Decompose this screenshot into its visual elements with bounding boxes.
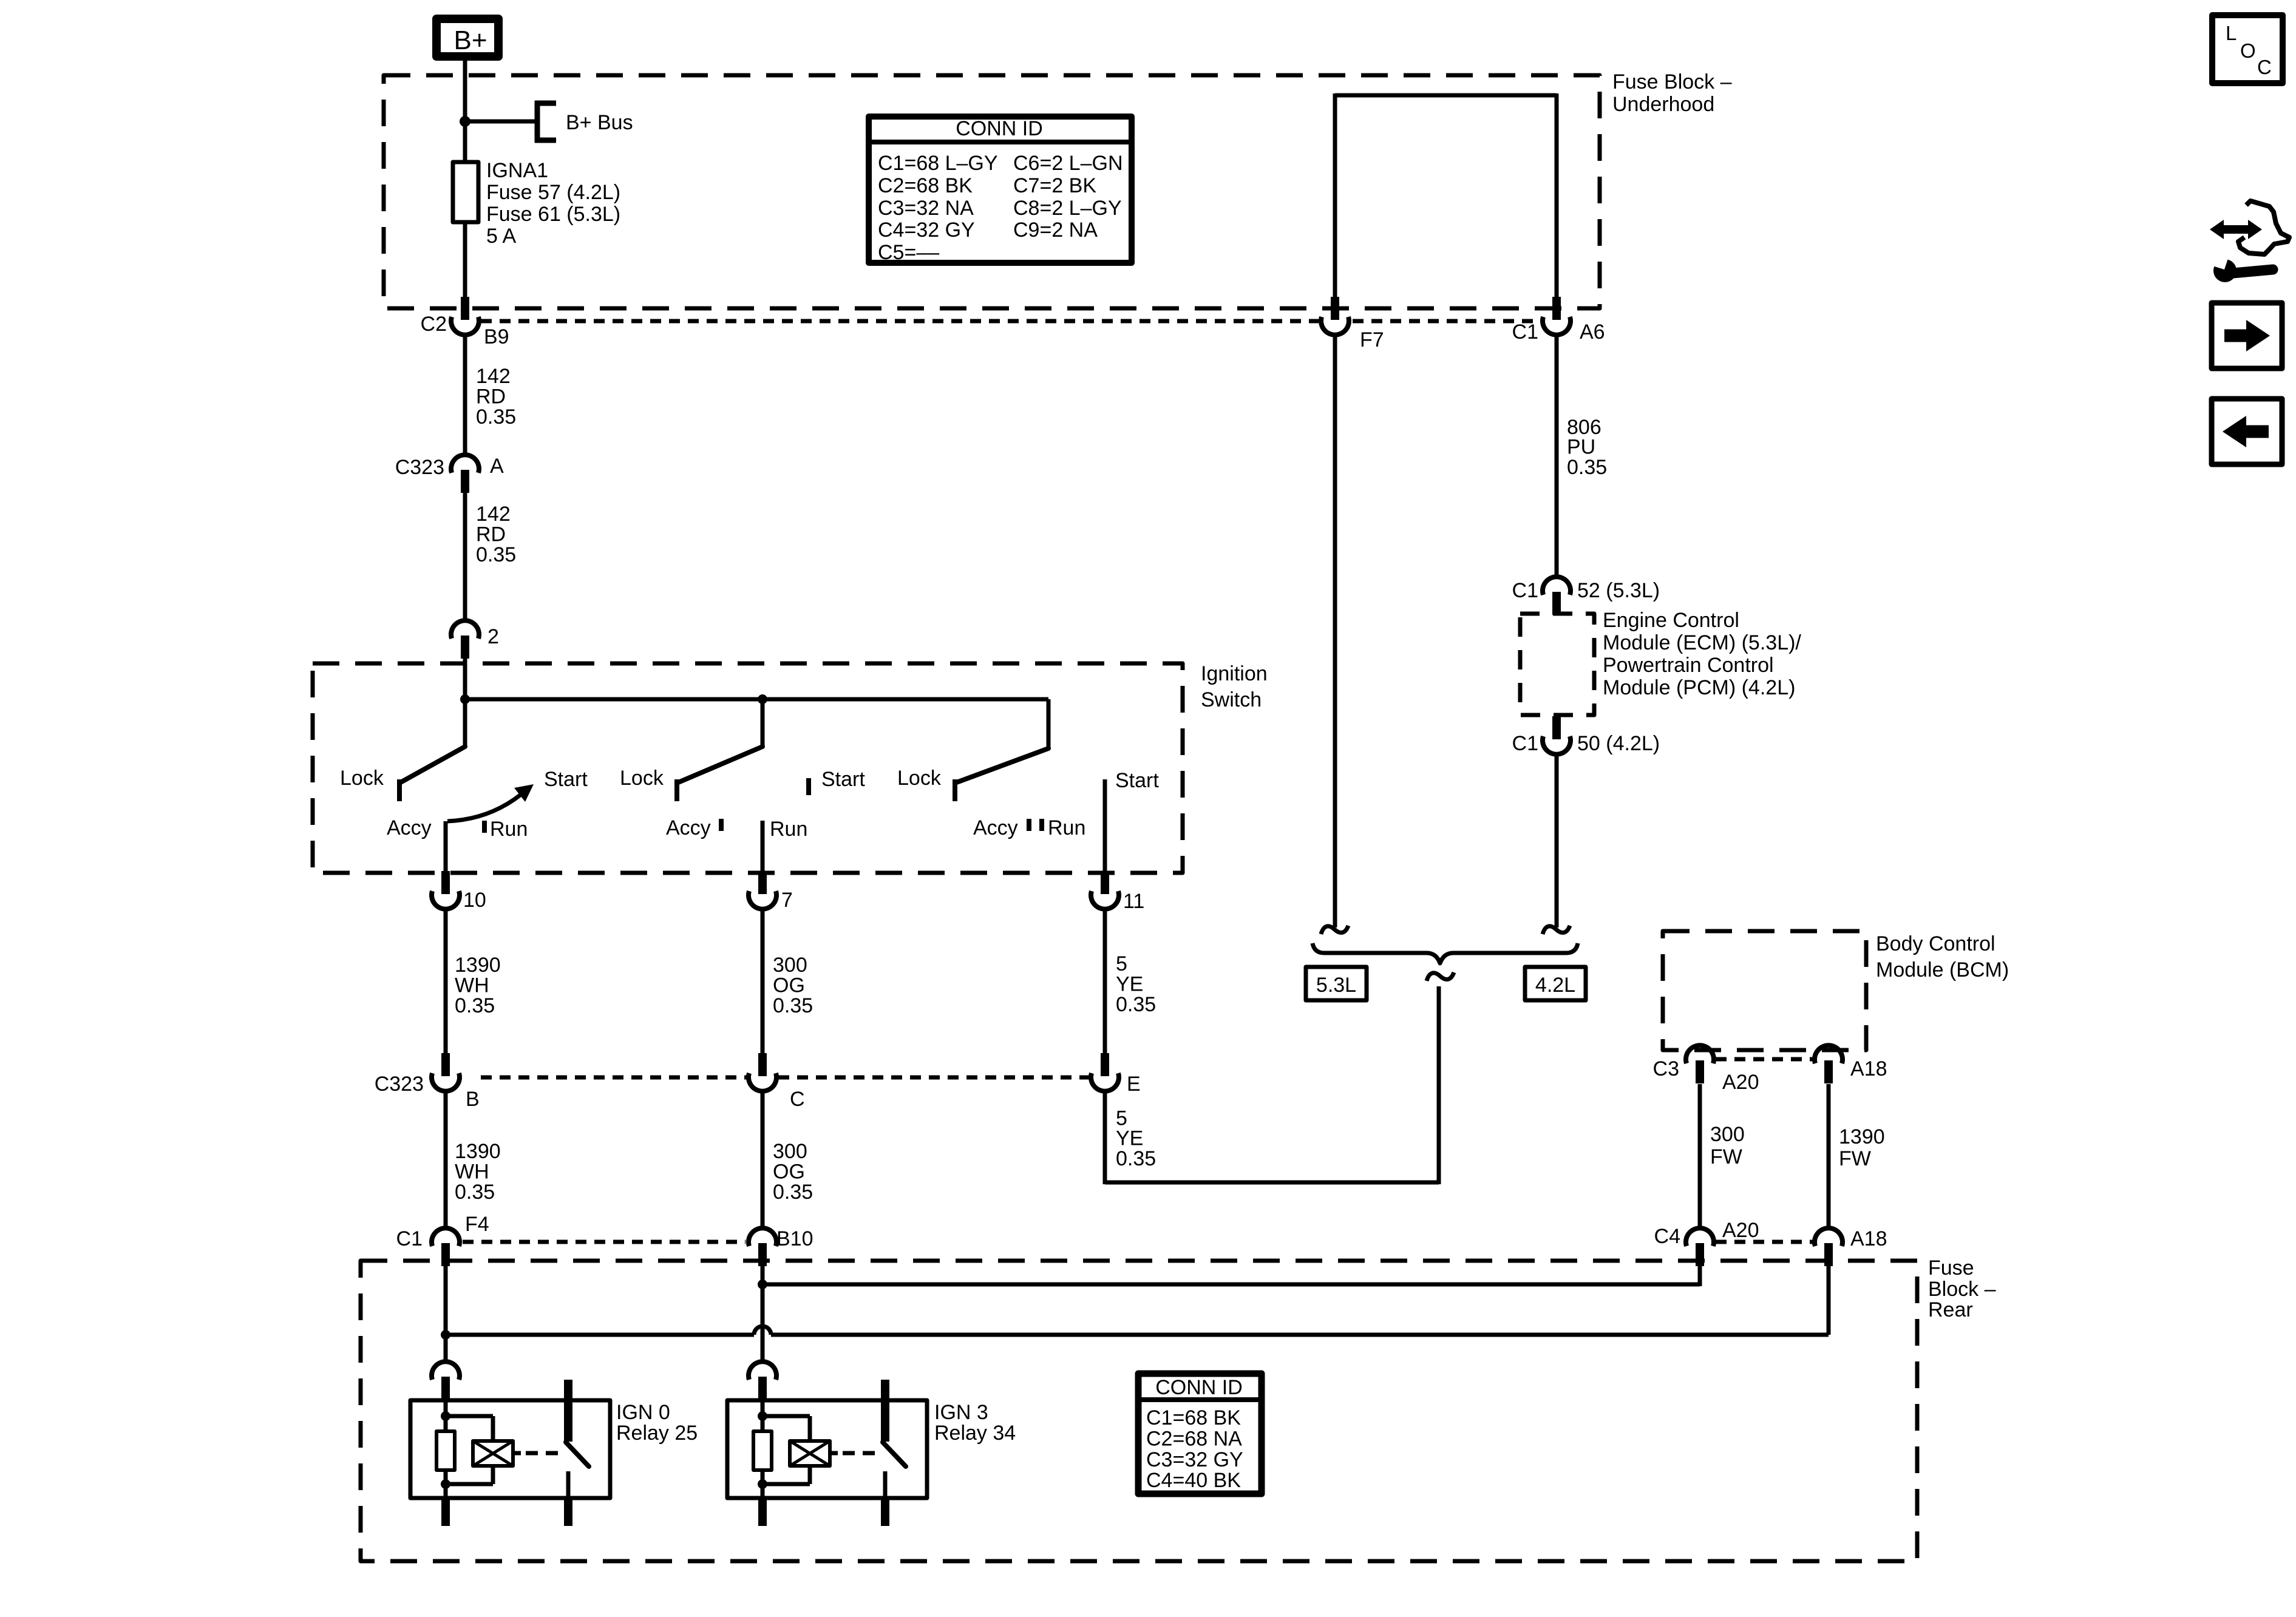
svg-text:300: 300 — [1710, 1123, 1745, 1146]
svg-text:5.3L: 5.3L — [1316, 974, 1356, 997]
svg-text:C3=32 NA: C3=32 NA — [878, 197, 974, 220]
svg-text:A6: A6 — [1580, 320, 1605, 344]
svg-text:1390: 1390 — [1839, 1125, 1885, 1148]
svg-text:C1=68 L–GY: C1=68 L–GY — [878, 152, 998, 175]
svg-text:Relay 25: Relay 25 — [616, 1422, 698, 1445]
svg-text:Fuse 57 (4.2L): Fuse 57 (4.2L) — [486, 181, 620, 204]
svg-text:7: 7 — [781, 889, 793, 912]
svg-text:0.35: 0.35 — [1116, 1147, 1156, 1170]
svg-text:OG: OG — [773, 974, 805, 997]
svg-text:142: 142 — [476, 503, 511, 526]
svg-text:Relay 34: Relay 34 — [934, 1422, 1016, 1445]
svg-text:Body Control: Body Control — [1876, 932, 1995, 955]
svg-text:C6=2 L–GN: C6=2 L–GN — [1013, 152, 1123, 175]
svg-text:RD: RD — [476, 523, 506, 546]
svg-text:Run: Run — [770, 818, 807, 841]
svg-text:5: 5 — [1116, 952, 1127, 975]
svg-text:0.35: 0.35 — [455, 994, 495, 1017]
svg-text:L: L — [2226, 22, 2237, 44]
svg-text:WH: WH — [455, 974, 489, 997]
svg-text:1390: 1390 — [455, 954, 501, 977]
svg-text:C2=68 BK: C2=68 BK — [878, 174, 973, 197]
svg-text:Start: Start — [821, 768, 865, 791]
svg-text:Accy: Accy — [973, 816, 1018, 839]
svg-text:Accy: Accy — [666, 816, 711, 839]
svg-text:C4=32 GY: C4=32 GY — [878, 219, 975, 242]
svg-text:Switch: Switch — [1201, 688, 1262, 711]
svg-text:PU: PU — [1567, 436, 1595, 459]
svg-text:E: E — [1127, 1073, 1141, 1096]
svg-text:Module (PCM) (4.2L): Module (PCM) (4.2L) — [1603, 676, 1795, 699]
svg-text:A18: A18 — [1850, 1057, 1887, 1080]
svg-text:C3: C3 — [1653, 1057, 1679, 1080]
svg-text:C7=2 BK: C7=2 BK — [1013, 174, 1096, 197]
svg-text:RD: RD — [476, 385, 506, 408]
svg-text:Accy: Accy — [387, 816, 432, 839]
svg-text:C4=40 BK: C4=40 BK — [1146, 1469, 1241, 1492]
svg-text:C3=32 GY: C3=32 GY — [1146, 1448, 1243, 1471]
svg-text:CONN ID: CONN ID — [956, 117, 1043, 140]
svg-text:2: 2 — [487, 625, 499, 648]
svg-text:0.35: 0.35 — [476, 543, 516, 566]
svg-text:C2: C2 — [421, 313, 447, 336]
svg-text:Start: Start — [544, 768, 588, 791]
svg-text:0.35: 0.35 — [476, 405, 516, 429]
svg-text:C323: C323 — [375, 1073, 424, 1096]
svg-text:Fuse Block –: Fuse Block – — [1612, 70, 1732, 93]
svg-text:B10: B10 — [776, 1227, 813, 1250]
svg-text:Block –: Block – — [1928, 1278, 1996, 1301]
svg-text:O: O — [2240, 39, 2256, 62]
svg-text:0.35: 0.35 — [773, 994, 813, 1017]
svg-text:1390: 1390 — [455, 1140, 501, 1163]
svg-text:F4: F4 — [465, 1213, 489, 1236]
svg-text:YE: YE — [1116, 1127, 1143, 1150]
svg-text:10: 10 — [463, 889, 486, 912]
svg-text:FW: FW — [1710, 1145, 1742, 1168]
svg-text:Module (ECM) (5.3L)/: Module (ECM) (5.3L)/ — [1603, 631, 1801, 654]
svg-text:A20: A20 — [1722, 1071, 1759, 1094]
svg-text:A18: A18 — [1850, 1227, 1887, 1250]
svg-text:C: C — [2257, 56, 2272, 78]
svg-text:0.35: 0.35 — [1116, 993, 1156, 1016]
svg-text:Lock: Lock — [897, 767, 942, 790]
svg-text:Ignition: Ignition — [1201, 662, 1268, 685]
svg-text:11: 11 — [1123, 890, 1144, 913]
svg-text:OG: OG — [773, 1161, 805, 1184]
svg-text:Lock: Lock — [620, 767, 664, 790]
svg-text:C323: C323 — [395, 456, 444, 479]
svg-text:300: 300 — [773, 1140, 807, 1163]
svg-text:C5=––: C5=–– — [878, 241, 939, 264]
svg-text:Module (BCM): Module (BCM) — [1876, 958, 2009, 981]
svg-text:5 A: 5 A — [486, 225, 516, 248]
svg-text:Start: Start — [1115, 769, 1159, 792]
svg-text:F7: F7 — [1360, 328, 1384, 351]
svg-text:0.35: 0.35 — [1567, 456, 1607, 479]
svg-text:C1: C1 — [396, 1227, 423, 1250]
svg-text:C1: C1 — [1512, 579, 1538, 602]
svg-text:FW: FW — [1839, 1147, 1871, 1170]
svg-text:YE: YE — [1116, 973, 1143, 996]
svg-text:C4: C4 — [1654, 1225, 1680, 1248]
svg-text:52 (5.3L): 52 (5.3L) — [1577, 579, 1660, 602]
svg-text:CONN ID: CONN ID — [1155, 1376, 1243, 1399]
svg-text:142: 142 — [476, 365, 511, 388]
svg-text:C1: C1 — [1512, 320, 1538, 344]
svg-text:IGNA1: IGNA1 — [486, 159, 548, 182]
svg-text:300: 300 — [773, 954, 807, 977]
svg-text:Fuse 61 (5.3L): Fuse 61 (5.3L) — [486, 203, 620, 226]
svg-text:Fuse: Fuse — [1928, 1256, 1974, 1280]
svg-text:B+ Bus: B+ Bus — [566, 111, 633, 134]
svg-text:Underhood: Underhood — [1612, 93, 1714, 116]
svg-text:Rear: Rear — [1928, 1298, 1973, 1321]
svg-text:50 (4.2L): 50 (4.2L) — [1577, 732, 1660, 755]
svg-text:Lock: Lock — [340, 767, 384, 790]
svg-text:Run: Run — [1048, 816, 1085, 839]
svg-text:C8=2 L–GY: C8=2 L–GY — [1013, 197, 1122, 220]
svg-text:Run: Run — [490, 818, 528, 841]
svg-text:4.2L: 4.2L — [1535, 974, 1575, 997]
svg-text:B9: B9 — [484, 325, 509, 348]
svg-text:C: C — [790, 1088, 805, 1111]
svg-text:WH: WH — [455, 1161, 489, 1184]
svg-text:B+: B+ — [453, 25, 487, 55]
svg-text:IGN 0: IGN 0 — [616, 1401, 670, 1424]
svg-text:B: B — [466, 1088, 480, 1111]
svg-text:Engine Control: Engine Control — [1603, 609, 1739, 632]
svg-text:IGN 3: IGN 3 — [934, 1401, 988, 1424]
svg-text:C2=68 NA: C2=68 NA — [1146, 1428, 1242, 1451]
svg-text:0.35: 0.35 — [773, 1181, 813, 1204]
svg-text:C1: C1 — [1512, 732, 1538, 755]
svg-text:C9=2 NA: C9=2 NA — [1013, 219, 1098, 242]
svg-text:C1=68 BK: C1=68 BK — [1146, 1406, 1241, 1429]
svg-text:A20: A20 — [1722, 1219, 1759, 1242]
svg-text:A: A — [490, 455, 504, 478]
svg-text:0.35: 0.35 — [455, 1181, 495, 1204]
svg-text:Powertrain Control: Powertrain Control — [1603, 654, 1774, 677]
